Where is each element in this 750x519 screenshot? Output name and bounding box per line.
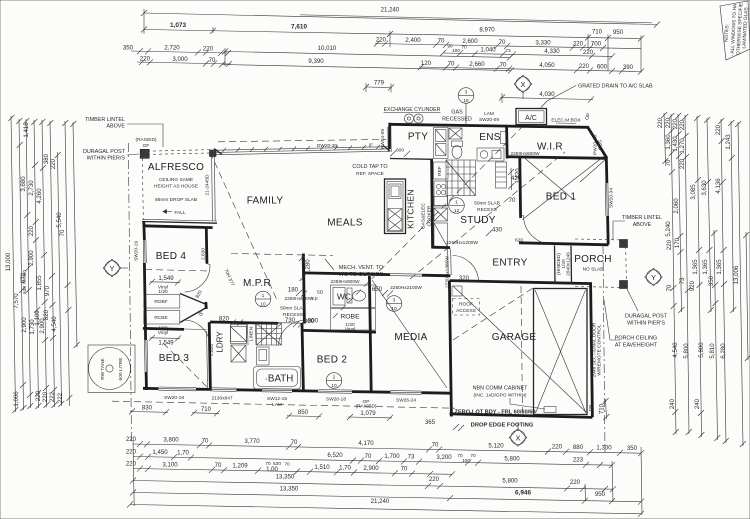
left dimension column 4,540	[65, 121, 70, 406]
svg-text:3,680: 3,680	[20, 176, 27, 192]
svg-text:220: 220	[203, 46, 214, 53]
svg-text:1,00: 1,00	[266, 466, 278, 473]
wall left exterior (alfresco open edge, dashed)	[142, 158, 143, 219]
svg-text:ZERO-LOT BDY - FRL 60/60/60: ZERO-LOT BDY - FRL 60/60/60	[455, 410, 536, 416]
dimension 10,010	[225, 52, 510, 58]
svg-text:3: 3	[465, 90, 468, 96]
svg-text:RCBE: RCBE	[154, 315, 167, 321]
svg-text:SW20-18: SW20-18	[326, 397, 346, 403]
svg-text:779: 779	[374, 80, 385, 87]
left dimension column 2,730 / 2,900 / 220	[34, 120, 39, 408]
svg-text:1,549: 1,549	[158, 275, 174, 282]
dimension 710 below laundry	[192, 412, 219, 415]
svg-text:220: 220	[140, 56, 151, 63]
shower bath (tiled grid)	[257, 324, 282, 346]
wall top-right diagonal corner	[587, 126, 607, 158]
svg-text:DROP EDGE FOOTING: DROP EDGE FOOTING	[471, 423, 534, 429]
ceiling line dashed diagonal study	[410, 152, 565, 279]
svg-text:920: 920	[689, 280, 696, 291]
svg-text:RW TANK: RW TANK	[100, 357, 106, 379]
svg-text:GRATED DRAIN TO A/C SLAB: GRATED DRAIN TO A/C SLAB	[578, 84, 653, 90]
svg-text:820: 820	[195, 289, 204, 299]
bottom dimension row A: 220/3,800/70/3,770/70/4,170/70/5,120/220/880/1,300/350	[133, 444, 641, 453]
right dimension column b: 1,360 / 5,240 / 4,540	[671, 114, 676, 434]
robe ROBF bed4	[144, 295, 180, 309]
kitchen island bench	[385, 179, 406, 234]
dimension 1,280 vertical mpr	[301, 256, 304, 280]
svg-text:1,700: 1,700	[384, 453, 400, 460]
wall bed1 bottom	[519, 243, 609, 245]
symbol circle 3/10	[386, 296, 402, 312]
dimension row 90/100/70/1,040/73/4,330/220	[443, 53, 612, 56]
svg-text:4,330: 4,330	[544, 48, 560, 55]
window on left wall (bed3)	[144, 340, 147, 372]
wall bottom exterior with window openings	[143, 387, 159, 390]
svg-text:AT EAVEHEIGHT: AT EAVEHEIGHT	[615, 343, 658, 349]
window SW26-24 media	[391, 390, 422, 393]
svg-text:DURAGAL POST: DURAGAL POST	[83, 149, 126, 155]
svg-text:222: 222	[49, 391, 56, 402]
wall meals south / mech vent	[304, 273, 390, 275]
svg-text:5,540: 5,540	[56, 212, 63, 228]
ens vanity	[477, 148, 504, 161]
post alfresco top-left	[140, 149, 149, 158]
svg-text:OP: OP	[584, 112, 592, 121]
bath vanity	[257, 347, 270, 365]
svg-text:OBS: OBS	[598, 140, 604, 150]
kitchen appliance column	[431, 160, 434, 248]
robe mid ROBE	[331, 309, 376, 331]
svg-text:3,200: 3,200	[436, 454, 452, 461]
dimension 1,079 below bed2	[348, 416, 392, 419]
svg-text:73: 73	[679, 277, 686, 284]
dimension 1,549 bed4 robe	[150, 281, 180, 284]
dimension 830 below bed3	[130, 411, 168, 414]
bottom dimension row F: 21,240	[130, 505, 641, 514]
svg-text:9°: 9°	[369, 143, 374, 149]
svg-text:100: 100	[462, 458, 470, 464]
svg-text:4,050: 4,050	[539, 62, 555, 69]
wall bath/bed2 divider	[302, 323, 303, 392]
section marker X top	[516, 77, 530, 91]
svg-text:350: 350	[123, 45, 134, 52]
wall top exterior pty to wir	[389, 124, 588, 127]
nook chamfer walls	[180, 294, 207, 305]
svg-text:600: 600	[597, 63, 608, 70]
wall wir bottom	[507, 157, 606, 159]
svg-text:5,800: 5,800	[698, 342, 705, 358]
svg-text:ROOF: ROOF	[459, 302, 473, 308]
svg-text:3,330: 3,330	[535, 40, 551, 47]
svg-text:4,540: 4,540	[672, 342, 679, 358]
svg-text:70: 70	[59, 229, 66, 236]
svg-text:ENTRY: ENTRY	[492, 258, 527, 269]
svg-text:ELEC.M.BOX: ELEC.M.BOX	[551, 118, 581, 124]
svg-text:4,136: 4,136	[715, 178, 722, 194]
svg-text:A/C: A/C	[525, 115, 537, 122]
svg-text:220: 220	[552, 444, 563, 451]
svg-text:70: 70	[432, 442, 439, 449]
wall bed2 top / robe bottom	[304, 330, 377, 332]
svg-text:RECESS: RECESS	[477, 207, 497, 213]
bottom dimension row E: 13,350 / 6,946 / 950	[133, 493, 641, 502]
svg-text:220: 220	[679, 119, 686, 130]
svg-text:GAS: GAS	[451, 110, 463, 116]
svg-text:70: 70	[500, 61, 507, 68]
post alfresco top-right	[210, 150, 217, 157]
svg-text:350: 350	[627, 445, 638, 452]
svg-text:NOTES:: NOTES:	[724, 24, 731, 42]
wall bed4 right	[205, 228, 208, 264]
svg-text:1,450: 1,450	[152, 449, 168, 456]
dimension 4,030 ac slab	[500, 98, 593, 100]
svg-text:WITHIN PIER'S: WITHIN PIER'S	[627, 321, 665, 327]
svg-text:21-2445D: 21-2445D	[205, 174, 211, 196]
svg-text:Y: Y	[109, 264, 114, 273]
bottom dimension row D: 13,350 / 220 / 5,800 / 220	[133, 481, 613, 490]
svg-text:GAS&ELEC: GAS&ELEC	[421, 203, 427, 229]
porch posts	[620, 240, 628, 248]
svg-text:1,430: 1,430	[672, 136, 679, 152]
svg-text:1: 1	[455, 200, 458, 206]
svg-text:365: 365	[425, 419, 436, 426]
svg-text:70: 70	[499, 39, 506, 46]
svg-text:220: 220	[126, 461, 137, 468]
svg-text:6,520: 6,520	[327, 452, 343, 459]
left dimension column short	[58, 152, 62, 406]
svg-text:220: 220	[579, 63, 590, 70]
svg-text:WC: WC	[337, 292, 351, 302]
bottom dimension row C: 220/3,100/70/1,209/70-530-70/1,510/170/2,900/70	[133, 469, 452, 475]
svg-text:PW04-09: PW04-09	[380, 129, 386, 149]
svg-text:KITCHEN: KITCHEN	[406, 189, 416, 229]
svg-text:PORCH CEILING: PORCH CEILING	[615, 336, 658, 342]
svg-text:3: 3	[393, 298, 396, 304]
wall wir/ens divider	[505, 127, 508, 159]
dimension 21,240 top overall	[144, 13, 657, 25]
svg-text:2250Hx900W: 2250Hx900W	[284, 296, 314, 302]
svg-text:320: 320	[459, 275, 470, 282]
svg-text:WC TO OUTSIDE: WC TO OUTSIDE	[339, 272, 384, 278]
svg-text:1,280: 1,280	[305, 259, 312, 275]
svg-text:2,660: 2,660	[469, 61, 485, 68]
svg-text:1,073: 1,073	[170, 22, 186, 29]
svg-text:1,270: 1,270	[679, 138, 686, 154]
svg-text:2,730: 2,730	[28, 180, 35, 196]
svg-text:SW20-09: SW20-09	[479, 117, 499, 123]
svg-text:630 70 550: 630 70 550	[22, 270, 28, 294]
svg-text:220: 220	[657, 117, 664, 128]
gas bottles	[404, 114, 413, 123]
svg-text:6,946: 6,946	[515, 490, 531, 497]
svg-text:5,800: 5,800	[502, 478, 518, 485]
svg-text:2250Hx1200W: 2250Hx1200W	[446, 240, 478, 246]
svg-text:LAM: LAM	[272, 402, 282, 408]
svg-text:50mn SLAB: 50mn SLAB	[474, 201, 500, 207]
svg-text:10,010: 10,010	[318, 45, 337, 52]
svg-text:4,540: 4,540	[51, 316, 58, 332]
svg-text:6,280: 6,280	[720, 343, 727, 359]
right dimension column i: 1,243	[731, 121, 734, 312]
svg-text:4,030: 4,030	[539, 91, 555, 98]
svg-text:WITHIN PIER/S: WITHIN PIER/S	[87, 156, 126, 162]
svg-text:600 LITRE: 600 LITRE	[118, 358, 124, 381]
dimension row 1,073 / 7,610 / 8,970 / 710 / 950	[144, 30, 641, 39]
svg-text:950: 950	[595, 491, 606, 498]
svg-text:1,549: 1,549	[158, 340, 174, 347]
bed1 ceiling diagonals	[523, 156, 606, 220]
ceiling line dashed diagonal meals to ens	[333, 127, 522, 318]
svg-text:70: 70	[284, 461, 290, 467]
svg-text:86mm DROP SLAB: 86mm DROP SLAB	[155, 197, 197, 203]
wall left exterior bed4/bed3	[142, 221, 145, 240]
svg-text:LDRY: LDRY	[216, 331, 225, 353]
svg-text:STUDY: STUDY	[460, 215, 495, 226]
bottom left connector	[133, 440, 134, 506]
garage door recess	[534, 289, 588, 415]
wall alfresco bottom	[142, 219, 217, 221]
svg-text:1,365: 1,365	[716, 259, 723, 275]
svg-text:10: 10	[260, 302, 266, 308]
svg-text:13,350: 13,350	[276, 474, 295, 481]
svg-text:2250Hx1385W: 2250Hx1385W	[445, 256, 451, 288]
boundary line left (dash-dot)	[128, 143, 131, 442]
svg-text:Vinyl: Vinyl	[345, 327, 355, 333]
right dimension column g: 350 / 5,810	[714, 230, 718, 440]
svg-text:1/20: 1/20	[158, 289, 168, 295]
svg-text:1,079: 1,079	[360, 410, 376, 417]
svg-text:W/REMOTE CONTROL: W/REMOTE CONTROL	[597, 324, 603, 375]
wall garage top	[450, 281, 593, 284]
svg-text:2250Hx900W: 2250Hx900W	[330, 279, 360, 285]
svg-text:70: 70	[401, 466, 408, 473]
svg-text:FAMILY: FAMILY	[247, 196, 284, 207]
svg-text:ROBE: ROBE	[340, 314, 360, 321]
robe RCBE bed3	[144, 311, 180, 325]
svg-text:CEILING SAME: CEILING SAME	[159, 177, 193, 183]
svg-text:TIMBER LINTEL: TIMBER LINTEL	[85, 117, 125, 123]
opening media to entry	[447, 249, 450, 276]
svg-text:SW12-15: SW12-15	[267, 396, 287, 402]
svg-text:16: 16	[463, 98, 469, 104]
svg-text:(RAISED): (RAISED)	[355, 404, 376, 410]
svg-text:Vinyl: Vinyl	[158, 330, 168, 336]
svg-text:220: 220	[570, 479, 581, 486]
linen LINEN	[247, 324, 250, 345]
window 2130x847 laundry	[211, 387, 237, 389]
svg-text:SW20-19: SW20-19	[134, 241, 140, 261]
linen shelves by study	[496, 162, 507, 188]
svg-text:2,900: 2,900	[21, 317, 28, 333]
svg-text:5,120: 5,120	[488, 443, 504, 450]
svg-text:220: 220	[376, 37, 387, 44]
svg-text:5,240: 5,240	[665, 221, 672, 237]
entry door jambs to porch	[554, 246, 557, 285]
LEFTDIMS	[657, 1, 750, 447]
svg-text:TIMBER LINTEL: TIMBER LINTEL	[622, 215, 662, 221]
window SW12-15 bath	[262, 388, 292, 391]
svg-text:REF. SPACE: REF. SPACE	[356, 171, 384, 177]
svg-text:2,600: 2,600	[462, 38, 478, 45]
window SW20-18 bed2	[318, 389, 352, 392]
svg-text:2,900: 2,900	[28, 250, 35, 266]
svg-text:220: 220	[28, 225, 35, 236]
svg-text:W.I.R: W.I.R	[537, 142, 563, 153]
svg-text:Y: Y	[651, 273, 656, 282]
svg-text:ENS: ENS	[479, 132, 500, 143]
ens toilet	[449, 128, 462, 139]
svg-text:350: 350	[708, 275, 715, 286]
wall alfresco top edge (raised, dashed)	[141, 150, 213, 152]
WALLS	[144, 127, 565, 389]
svg-text:1,040: 1,040	[480, 47, 496, 54]
svg-text:1,243: 1,243	[725, 134, 732, 150]
svg-text:GARAGE: GARAGE	[492, 332, 537, 343]
garage cross diagonals	[453, 286, 586, 412]
pantry window PW04-09	[387, 127, 389, 152]
svg-text:700: 700	[591, 41, 602, 48]
svg-text:220: 220	[429, 476, 440, 483]
svg-text:PTY: PTY	[408, 132, 428, 143]
ceiling line dashed horizontal family	[231, 254, 333, 256]
svg-text:2: 2	[333, 375, 336, 381]
svg-text:BED 1: BED 1	[546, 192, 577, 203]
svg-text:ALFRESCO: ALFRESCO	[148, 162, 204, 173]
dimension row 350 / 2,720 / 220 (left)	[131, 51, 228, 53]
wall garage bottom	[450, 414, 593, 418]
svg-text:NO SLAB: NO SLAB	[583, 267, 604, 273]
wall media left	[369, 276, 371, 392]
svg-text:1,420: 1,420	[515, 168, 522, 184]
svg-text:REF: REF	[437, 166, 443, 176]
svg-text:3,800: 3,800	[163, 437, 179, 444]
svg-text:2,720: 2,720	[164, 45, 180, 52]
svg-text:70: 70	[365, 453, 372, 460]
svg-text:73: 73	[408, 454, 415, 461]
svg-text:3,100: 3,100	[162, 461, 178, 468]
svg-text:70: 70	[215, 462, 222, 469]
svg-text:(RAISED): (RAISED)	[135, 137, 156, 143]
window SW20-34 right wall	[604, 183, 607, 216]
dimension 850 below bath	[287, 415, 321, 418]
svg-text:(INC. 1xD/GPO WITHIN): (INC. 1xD/GPO WITHIN)	[473, 393, 526, 399]
right dimension column f: 3,630 / 1,365 / 5,810	[707, 118, 711, 312]
dimension row 120/70/2,660/70/4,050/220/600/390	[419, 67, 641, 72]
wall laundry left / bed3 right	[209, 322, 210, 390]
svg-text:21,240: 21,240	[381, 7, 400, 14]
svg-text:880: 880	[573, 444, 584, 451]
svg-text:21,240: 21,240	[371, 498, 390, 505]
svg-text:SW20-34: SW20-34	[609, 188, 615, 208]
window band family top (DW20-30 stacker)	[216, 147, 390, 151]
svg-text:380: 380	[43, 153, 50, 164]
svg-text:600: 600	[396, 148, 404, 154]
svg-text:ABOVE: ABOVE	[633, 222, 652, 228]
section marker Y right	[646, 270, 660, 284]
svg-text:·BATH: ·BATH	[265, 374, 294, 385]
roof overhang dashed line below house	[112, 401, 455, 408]
wall garage right (zero lot)	[591, 284, 593, 418]
svg-text:1,209: 1,209	[232, 463, 248, 470]
svg-text:220: 220	[35, 390, 42, 401]
svg-text:4,260: 4,260	[36, 188, 43, 204]
svg-text:223: 223	[573, 457, 584, 464]
svg-text:3,770: 3,770	[244, 438, 260, 445]
svg-text:240: 240	[669, 398, 676, 409]
svg-text:13,000: 13,000	[5, 252, 12, 271]
svg-text:100: 100	[452, 48, 460, 54]
svg-text:10: 10	[331, 383, 337, 389]
svg-text:2,060: 2,060	[673, 198, 680, 214]
svg-text:820: 820	[219, 315, 230, 322]
svg-text:X: X	[520, 80, 525, 89]
svg-text:710: 710	[201, 406, 212, 413]
svg-text:70: 70	[665, 159, 672, 166]
porch dashed edges	[575, 239, 626, 240]
wc room fixtures	[331, 285, 376, 308]
svg-text:RECESSED: RECESSED	[442, 117, 472, 123]
svg-text:220: 220	[672, 118, 679, 129]
svg-text:70: 70	[202, 437, 209, 444]
svg-text:MEDIA: MEDIA	[394, 332, 427, 343]
svg-text:1,730: 1,730	[29, 319, 36, 335]
svg-text:2040x1246: 2040x1246	[566, 252, 572, 276]
svg-text:ABOVE: ABOVE	[106, 124, 125, 130]
section marker X bottom	[511, 430, 525, 444]
svg-text:SW26-24: SW26-24	[396, 397, 416, 403]
svg-text:1,510: 1,510	[314, 464, 330, 471]
bottom dimension row B: 220/1,450/170/6,520/70/1,700/73/3,200/70-100-70/5,800/223	[133, 457, 612, 466]
svg-text:EXCHANGE CYLINDER: EXCHANGE CYLINDER	[384, 107, 441, 113]
svg-text:70: 70	[448, 60, 455, 67]
left dimension column 13,000	[11, 116, 16, 412]
symbol circle 2/10 bed2	[326, 373, 342, 389]
svg-text:220: 220	[126, 449, 137, 456]
svg-text:4,170: 4,170	[358, 440, 374, 447]
ceiling line dashed diagonal alfresco to mpr	[210, 152, 277, 300]
svg-text:220: 220	[679, 158, 686, 169]
svg-text:950: 950	[613, 29, 624, 36]
svg-text:1,006: 1,006	[13, 391, 20, 407]
svg-text:13,006: 13,006	[733, 265, 740, 284]
svg-text:X: X	[515, 434, 520, 443]
svg-text:2,630: 2,630	[201, 248, 207, 260]
wall bed1/entry left	[518, 158, 522, 218]
svg-text:ACCESS: ACCESS	[456, 308, 476, 314]
door arc bath	[279, 321, 305, 346]
ROOMS	[352, 75, 667, 452]
ens shower tiled	[446, 160, 476, 196]
dimension row 220 / 3,000 / 70 (left)	[137, 62, 231, 64]
svg-text:5,800: 5,800	[683, 343, 690, 359]
wall laundry/bath top	[210, 322, 278, 323]
svg-text:COLD TAP TO: COLD TAP TO	[352, 164, 387, 170]
svg-text:10: 10	[391, 306, 397, 312]
rainwater tank	[88, 345, 135, 393]
svg-text:SD: SD	[317, 290, 324, 296]
dimension row 220/2,400/70/2,600/70/3,330/220/700	[375, 44, 641, 49]
svg-text:5,810: 5,810	[709, 343, 716, 359]
svg-text:730: 730	[285, 317, 296, 324]
door arc bed3	[185, 320, 211, 346]
svg-text:1,365: 1,365	[692, 259, 699, 275]
svg-text:1,70: 1,70	[339, 465, 351, 472]
dimension 710 right of garage (vertical)	[606, 399, 607, 419]
svg-text:FALL: FALL	[174, 210, 186, 216]
svg-text:70: 70	[470, 453, 476, 459]
svg-text:12: 12	[454, 208, 460, 214]
ceiling dash above family window	[218, 139, 386, 141]
